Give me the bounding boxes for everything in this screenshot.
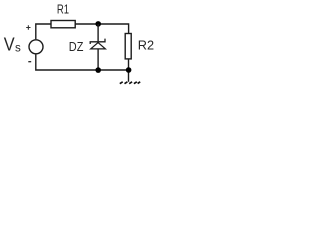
wire zener branch upper <box>97 24 99 41</box>
wire zener branch lower <box>97 50 99 71</box>
wire R2 bottom <box>128 59 130 82</box>
wire top rail: source top to R1 to node to R2 corner <box>36 24 51 39</box>
zener diode DZ triangle <box>91 43 106 49</box>
resistor R1 body <box>51 21 75 28</box>
svg-text:s: s <box>15 42 21 54</box>
svg-text:DZ: DZ <box>69 39 84 54</box>
svg-text:R1: R1 <box>57 1 69 16</box>
ground symbol <box>120 82 140 84</box>
svg-text:R2: R2 <box>138 38 154 53</box>
node junction dot top <box>95 21 101 27</box>
plus polarity mark <box>26 25 30 29</box>
voltage source Vs <box>29 40 43 54</box>
wire top rail right segment <box>75 24 128 33</box>
wire bottom rail <box>36 54 129 70</box>
minus polarity mark <box>28 61 31 63</box>
resistor R2 body <box>125 34 131 59</box>
zener diode DZ cathode bar <box>90 39 105 44</box>
node junction dot bottom <box>95 67 101 73</box>
svg-text:V: V <box>4 35 15 55</box>
node junction dot ground <box>126 67 132 73</box>
